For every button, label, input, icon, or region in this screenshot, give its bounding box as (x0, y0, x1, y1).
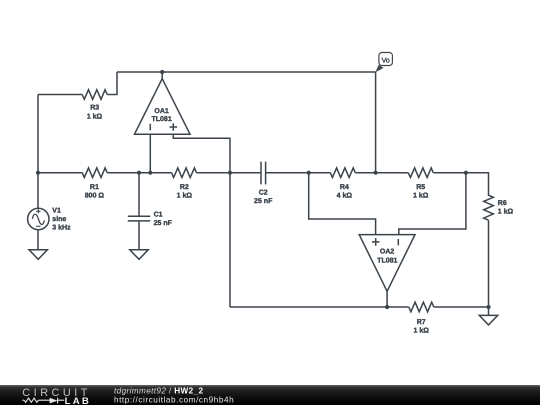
wire C1 top lead (138, 173, 140, 217)
value R2 1 kOhm (177, 191, 192, 199)
wire OA2 inverting input feedback to R5/R6 node (399, 173, 466, 235)
label OA2 (380, 247, 394, 255)
value V1 3 kHz (52, 223, 70, 231)
wire bus R5 to R6 corner (433, 173, 488, 196)
node OA1 inverting input junction (148, 171, 152, 175)
wire top output rail (117, 71, 376, 73)
node R6/R7 ground junction (486, 305, 490, 309)
svg-text:R7: R7 (417, 318, 426, 326)
op-amp U OA1 triangle (135, 79, 191, 135)
node OA2 + input junction (307, 171, 311, 175)
wire OA1 inverting input pin to bus (149, 134, 151, 173)
wire main bus left segment (38, 172, 82, 174)
value V1 sine (52, 215, 66, 223)
value R5 1 kOhm (413, 191, 428, 199)
op-amp OA2 minus sign (inverting pin mark) (397, 239, 399, 245)
node OA1 + feedback junction (228, 171, 232, 175)
label V1 (52, 206, 61, 214)
op-amp OA1 output stub (161, 72, 163, 79)
wire OA2 non-inverting input to bus node (309, 173, 376, 235)
svg-text:TL081: TL081 (377, 256, 397, 264)
value C2 25 nF (254, 197, 272, 205)
label R5 (416, 183, 425, 191)
wire Vo drop to R4/R5 node (375, 72, 377, 173)
svg-text:800 Ω: 800 Ω (85, 191, 104, 199)
label R4 (340, 183, 349, 191)
wire bus C2 to R4 (266, 172, 331, 174)
footer line 2: url (114, 395, 234, 404)
wire OA2 output stub (386, 291, 388, 307)
node OA2 - feedback junction (464, 171, 468, 175)
svg-text:25 nF: 25 nF (254, 197, 272, 205)
svg-text:LAB: LAB (65, 396, 92, 405)
value R6 1 kOhm (498, 207, 513, 215)
svg-text:1 kΩ: 1 kΩ (414, 326, 429, 334)
label Vo (382, 56, 390, 64)
label OA1 (154, 107, 168, 115)
value C1 25 nF (154, 219, 172, 227)
svg-text:1 kΩ: 1 kΩ (413, 191, 428, 199)
wire left rail (37, 95, 39, 209)
svg-text:http://circuitlab.com/cn9hb4h: http://circuitlab.com/cn9hb4h (114, 395, 234, 404)
svg-text:Vo: Vo (382, 56, 390, 64)
CircuitLab logo resistor-diode glyph (22, 398, 64, 404)
resistor R5 (408, 168, 433, 178)
svg-text:R1: R1 (90, 183, 99, 191)
wire R3 left lead from left rail (38, 94, 82, 96)
value R3 1 k&#937; (87, 112, 102, 120)
node left rail / bus junction (36, 171, 40, 175)
ground under V1 (29, 250, 47, 259)
resistor R6 (484, 195, 494, 220)
V1 minus polarity mark (36, 225, 40, 227)
svg-text:3 kHz: 3 kHz (52, 223, 70, 231)
resistor R3 (82, 90, 107, 100)
CircuitLab logo wordmark LAB (65, 396, 92, 407)
V1 sine waveform glyph (32, 214, 44, 224)
node Vo / R4 / R5 junction (374, 171, 378, 175)
svg-text:OA2: OA2 (380, 247, 394, 255)
value R1 800 Ohm (85, 191, 104, 199)
CircuitLab logo wordmark CIRCUIT (22, 387, 91, 399)
capacitor C2 (261, 162, 266, 185)
wire ground stub bottom right (488, 307, 490, 315)
wire OA1 non-inverting input pin to node (173, 134, 230, 173)
label R2 (180, 183, 189, 191)
value OA2 TL081 (377, 256, 397, 264)
wire bus R1 to R2 (107, 172, 171, 174)
op-amp OA2 plus sign (non-inverting pin mark) (372, 238, 380, 246)
svg-text:R2: R2 (180, 183, 189, 191)
resistor R4 (330, 168, 355, 178)
wire long vertical from bus node down (229, 173, 231, 307)
wire V1 bottom to ground (37, 230, 39, 250)
wire bus R4 to R5 (355, 172, 408, 174)
svg-text:1 kΩ: 1 kΩ (177, 191, 192, 199)
value R4 4 kOhm (337, 191, 352, 199)
node OA2 output junction (385, 305, 389, 309)
label R1 (90, 183, 99, 191)
svg-text:1 kΩ: 1 kΩ (87, 112, 102, 120)
op-amp OA1 plus sign (non-inverting pin mark) (170, 123, 178, 131)
wire bottom bus to R7 (230, 306, 409, 308)
svg-text:C2: C2 (259, 188, 268, 196)
ground bottom right (479, 315, 497, 325)
svg-text:R5: R5 (416, 183, 425, 191)
svg-text:V1: V1 (52, 206, 61, 214)
value R7 1 kOhm (414, 326, 429, 334)
wire R3 right lead up to top rail (107, 72, 117, 95)
op-amp OA2 triangle (359, 235, 415, 292)
ground under C1 (130, 250, 148, 259)
resistor R1 (82, 168, 107, 178)
svg-text:25 nF: 25 nF (154, 219, 172, 227)
svg-text:tdgrimmett92 / HW2_2: tdgrimmett92 / HW2_2 (114, 386, 203, 395)
resistor R7 (409, 302, 434, 312)
svg-text:sine: sine (52, 215, 66, 223)
footer line 1: username / title (114, 386, 203, 395)
wire R7 to right ground node (434, 306, 489, 308)
svg-text:C1: C1 (154, 210, 163, 218)
wire R6 bottom to bottom bus (488, 220, 490, 307)
probe Vo box (379, 53, 393, 66)
svg-text:1 kΩ: 1 kΩ (498, 207, 513, 215)
value OA1 TL081 (151, 115, 171, 123)
resistor R2 (172, 168, 197, 178)
svg-text:OA1: OA1 (154, 107, 168, 115)
wire C1 bottom to ground (138, 221, 140, 250)
label R7 (417, 318, 426, 326)
svg-text:R6: R6 (498, 199, 507, 207)
svg-text:4 kΩ: 4 kΩ (337, 191, 352, 199)
node OA1 output junction (160, 70, 164, 74)
label C1 (154, 210, 163, 218)
label R6 (498, 199, 507, 207)
svg-text:R3: R3 (90, 103, 99, 111)
op-amp OA1 minus sign (inverting pin mark) (149, 124, 151, 131)
node C1 top junction (137, 171, 141, 175)
voltage source V1 (sine) (28, 208, 49, 229)
svg-text:R4: R4 (340, 183, 349, 191)
svg-text:TL081: TL081 (151, 115, 171, 123)
label R3 (90, 103, 99, 111)
capacitor C1 (128, 216, 150, 221)
wire bus R2 to C2 (197, 172, 262, 174)
probe Vo pointer tail (375, 65, 383, 73)
V1 plus polarity mark (36, 209, 40, 213)
label C2 (259, 188, 268, 196)
